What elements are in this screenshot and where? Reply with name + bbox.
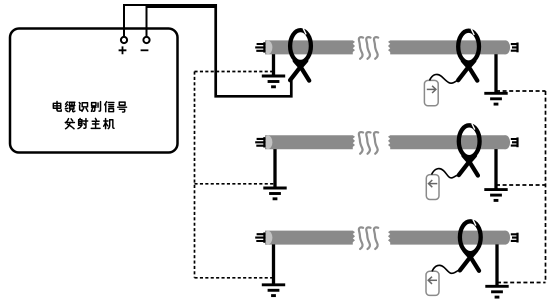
wire pair down to clamp CT1: [216, 4, 292, 96]
cord RX3 to CT4: [432, 265, 460, 273]
terminal +: [119, 37, 128, 54]
clamp CT2 (row1 sense) ring: [458, 31, 479, 63]
cable break squiggles: [359, 227, 378, 249]
wire from + terminal: [124, 5, 216, 37]
clamp CT1 (transmit coupler) jaw notch: [303, 28, 306, 34]
dashed earth bus left vertical: [194, 72, 196, 278]
ground E5 (row3 left) stem: [272, 244, 275, 285]
clamp CT3 (row2 sense) jaw notch: [472, 123, 475, 129]
clamp CT4 (row3 sense) ring: [460, 221, 481, 253]
cable right end cap: [501, 135, 510, 149]
dashed branch row3 right: [497, 282, 546, 284]
cable right end cap: [501, 40, 510, 54]
clamp CT1 (transmit coupler) handles: [290, 61, 309, 81]
cable segment (right): [388, 231, 506, 245]
dashed branch row1 right: [496, 90, 546, 92]
ground E4 (row2 right) stem: [494, 149, 497, 191]
wire from - terminal: [147, 7, 217, 37]
cable end hatch marks: [255, 232, 265, 242]
cable segment (right): [388, 135, 506, 149]
receiver RX2 arrow: [429, 180, 438, 187]
label text 电缆识别信号: [53, 101, 126, 112]
dashed branch row2 left: [195, 183, 276, 185]
cable end cap: [264, 231, 273, 244]
dashed branch row3 left: [195, 277, 274, 279]
cord RX2 to CT3: [432, 169, 459, 178]
receiver RX1 body: [424, 80, 438, 105]
cord RX1 to CT2: [430, 74, 460, 83]
label text 发射主机: [65, 118, 114, 128]
cable break squiggles: [359, 37, 378, 59]
cable break squiggles: [359, 132, 378, 154]
cable right hatch marks: [511, 43, 519, 53]
ground E1 (row1 left) bars: [262, 76, 285, 87]
cable segment (right): [388, 40, 506, 54]
cable end hatch marks: [255, 42, 265, 52]
ground E4 (row2 right) bars: [484, 190, 507, 201]
clamp CT4 (row3 sense) handles: [460, 251, 479, 271]
ground E2 (row1 right) bars: [484, 93, 507, 104]
receiver RX2 body: [426, 175, 439, 200]
transmitter box U1 (cable identification signal transmitter): [10, 29, 178, 153]
cable segment (left): [265, 135, 355, 149]
dashed earth bus right vertical: [545, 91, 547, 283]
cable end hatch marks: [255, 137, 265, 147]
clamp CT2 (row1 sense) handles: [458, 61, 477, 81]
cable right hatch marks: [511, 233, 519, 243]
receiver RX3 arrow: [428, 277, 437, 284]
receiver RX3 body: [426, 271, 439, 295]
cable segment (left): [265, 231, 355, 245]
cable segment (left): [265, 40, 355, 54]
dashed branch row2 right: [496, 184, 546, 186]
cable right end cap: [501, 231, 510, 245]
terminal -: [141, 37, 150, 50]
ground E6 (row3 right) bars: [485, 286, 508, 297]
ground E3 (row2 left) bars: [263, 188, 286, 199]
ground E1 (row1 left) stem: [272, 54, 275, 77]
clamp CT3 (row2 sense) handles: [459, 156, 478, 176]
dashed branch row1 left: [195, 71, 274, 73]
clamp CT2 (row1 sense) jaw notch: [471, 29, 474, 35]
ground E5 (row3 left) bars: [262, 285, 285, 296]
ground E2 (row1 right) stem: [494, 54, 497, 94]
ground E6 (row3 right) stem: [495, 244, 498, 287]
cable end cap: [264, 41, 273, 54]
clamp CT4 (row3 sense) jaw notch: [473, 219, 476, 225]
clamp CT1 (transmit coupler) ring: [290, 30, 311, 62]
clamp CT3 (row2 sense) ring: [459, 125, 480, 157]
receiver RX1 arrow: [427, 86, 436, 93]
ground E3 (row2 left) stem: [273, 149, 276, 189]
cable right hatch marks: [511, 137, 519, 147]
cable end cap: [264, 136, 273, 149]
